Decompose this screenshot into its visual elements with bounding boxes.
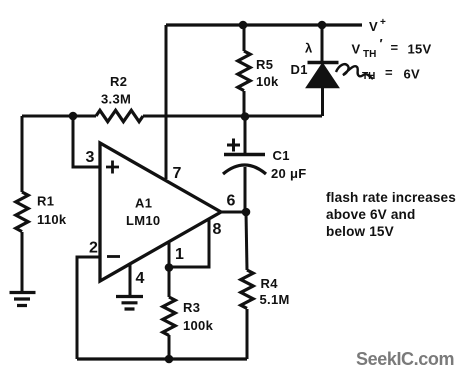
svg-text:1: 1 bbox=[175, 246, 184, 263]
svg-text:8: 8 bbox=[213, 221, 222, 238]
wire node to D1 bottom bbox=[245, 115, 322, 118]
svg-text:=: = bbox=[385, 65, 393, 80]
wire R4 top lead bbox=[246, 212, 247, 270]
node junction dot output bbox=[242, 208, 251, 217]
wire R5 bottom lead bbox=[243, 91, 246, 116]
wire R3 bottom lead bbox=[168, 335, 171, 359]
node junction dot pin1/R3 bbox=[165, 263, 174, 272]
svg-text:V: V bbox=[369, 19, 378, 34]
diode D1 LED top lead bbox=[321, 25, 324, 61]
resistor R4 bbox=[241, 270, 253, 308]
svg-text:TH: TH bbox=[362, 71, 375, 82]
resistor R5 bbox=[238, 51, 250, 91]
node junction dot top R5 bbox=[239, 21, 248, 30]
capacitor C1 bottom lead bbox=[244, 167, 247, 212]
resistor R1 bbox=[16, 192, 28, 232]
svg-text:110k: 110k bbox=[37, 212, 67, 227]
svg-text:flash rate increases: flash rate increases bbox=[326, 190, 456, 205]
wire R1 top lead bbox=[21, 116, 24, 192]
diode D1 bottom lead bbox=[321, 87, 324, 116]
svg-text:C1: C1 bbox=[273, 148, 290, 163]
squiggle arrow annotation bbox=[336, 64, 373, 79]
wire R1 bottom lead bbox=[21, 232, 24, 292]
node junction dot top D1 bbox=[318, 21, 327, 30]
svg-text:2: 2 bbox=[89, 240, 98, 257]
svg-text:A1: A1 bbox=[135, 196, 152, 211]
svg-text:LM10: LM10 bbox=[126, 213, 160, 228]
resistor R3 bbox=[163, 297, 175, 335]
wire output tip to node bbox=[221, 211, 246, 214]
svg-text:4: 4 bbox=[136, 270, 145, 287]
wire bottom rail bbox=[77, 357, 247, 360]
node junction dot R1/R2/pin3 bbox=[69, 112, 78, 121]
svg-text:15V: 15V bbox=[408, 42, 432, 57]
wire R4 bottom lead bbox=[246, 309, 249, 359]
svg-text:=: = bbox=[391, 40, 399, 55]
capacitor C1 plus sign bbox=[227, 139, 240, 152]
svg-text:3: 3 bbox=[86, 149, 95, 166]
op-amp minus input mark bbox=[107, 255, 120, 258]
svg-text:10k: 10k bbox=[256, 74, 279, 89]
svg-text:3.3M: 3.3M bbox=[101, 92, 131, 107]
wire pin 3 (from node to +input) bbox=[73, 116, 100, 167]
capacitor C1 top plate bbox=[224, 153, 265, 156]
svg-text:R4: R4 bbox=[261, 276, 279, 291]
wire R3 top lead bbox=[168, 267, 171, 297]
wire pin 1 lead bbox=[168, 242, 171, 267]
ground under R1 bbox=[10, 293, 36, 306]
resistor R2 bbox=[96, 110, 143, 121]
node junction dot R5/C1/R2/D1 bbox=[241, 112, 250, 121]
capacitor C1 bottom plate arc bbox=[223, 165, 266, 174]
wire pin 8 loop bbox=[169, 219, 209, 267]
svg-text:SeekIC.com: SeekIC.com bbox=[356, 349, 454, 369]
svg-text:20 μF: 20 μF bbox=[271, 166, 306, 181]
wire left horizontal net (R1 top to node) bbox=[22, 115, 96, 118]
svg-text:6: 6 bbox=[227, 193, 236, 210]
wire R2 right lead to node bbox=[143, 115, 245, 118]
svg-text:7: 7 bbox=[173, 165, 182, 182]
svg-text:below 15V: below 15V bbox=[326, 224, 394, 239]
diode D1 cathode bar bbox=[308, 61, 339, 64]
op-amp plus input mark bbox=[106, 161, 119, 174]
svg-text:R3: R3 bbox=[183, 300, 200, 315]
svg-text:R1: R1 bbox=[37, 194, 54, 209]
svg-text:V: V bbox=[352, 42, 361, 57]
svg-text:′: ′ bbox=[380, 36, 383, 51]
svg-text:6V: 6V bbox=[404, 67, 421, 82]
svg-text:5.1M: 5.1M bbox=[260, 292, 290, 307]
wire pin 4 lead bbox=[129, 264, 132, 296]
op-amp A1 triangle bbox=[100, 143, 221, 281]
capacitor C1 top lead bbox=[244, 116, 247, 154]
diode D1 triangle bbox=[307, 64, 339, 88]
svg-text:100k: 100k bbox=[183, 318, 214, 333]
wire R5 top lead bbox=[243, 25, 246, 51]
svg-text:R5: R5 bbox=[256, 57, 273, 72]
svg-text:TH: TH bbox=[363, 49, 376, 60]
svg-text:R2: R2 bbox=[110, 74, 127, 89]
node junction dot bottom bbox=[165, 355, 174, 364]
svg-text:λ: λ bbox=[305, 41, 313, 56]
svg-text:+: + bbox=[380, 17, 386, 28]
wire pin7 supply drop bbox=[165, 25, 168, 179]
wire top rail V+ bbox=[166, 23, 362, 26]
svg-text:D1: D1 bbox=[291, 62, 308, 77]
svg-text:above 6V and: above 6V and bbox=[326, 207, 415, 222]
wire pin 2 (to bottom rail) bbox=[77, 257, 100, 359]
ground under pin 4 bbox=[116, 297, 143, 310]
